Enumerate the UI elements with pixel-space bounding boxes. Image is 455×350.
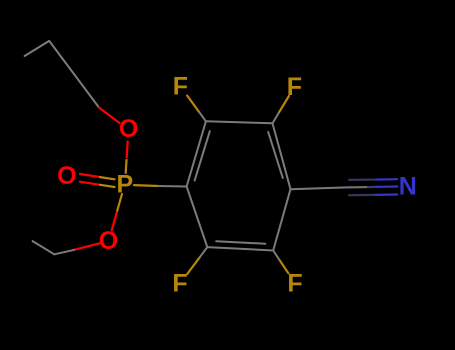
svg-text:P: P bbox=[117, 171, 134, 199]
svg-text:N: N bbox=[399, 173, 417, 201]
wire: nitrile triple bond top line bbox=[349, 178, 397, 181]
wire: C4-C(nitrile) single bond bbox=[291, 187, 348, 189]
wire: O3-CH2 bond red half bbox=[74, 243, 99, 250]
wire: O1-P bond olive half bbox=[125, 160, 128, 173]
svg-text:O: O bbox=[99, 227, 118, 255]
wire: C6-F3 bond olive half bbox=[187, 257, 200, 274]
wire: C3-F2 bond olive half bbox=[279, 96, 289, 113]
wire: C5-F4 bond olive half bbox=[279, 260, 288, 274]
wire: ring edge C3-C4 (right, double) bbox=[273, 123, 291, 189]
wire: P=O2 double bond upper line bbox=[80, 174, 115, 179]
wire: C2-F1 bond olive half bbox=[187, 96, 199, 113]
wire: P-O3 bond olive half bbox=[117, 194, 122, 212]
wire: ring inner double line C1-C2 bbox=[195, 131, 210, 180]
wire: ethyl CH3 terminal bond (top-left) bbox=[25, 41, 50, 56]
svg-text:F: F bbox=[287, 270, 302, 298]
svg-text:O: O bbox=[119, 115, 138, 143]
wire: C3-F2 bond gray half bbox=[273, 113, 279, 123]
wire: P-C1 bond gray half bbox=[158, 185, 187, 188]
wire: C5-F4 bond gray half bbox=[273, 251, 279, 260]
wire: P=O2 double bond lower line bbox=[80, 182, 115, 187]
wire: ethyl CH3 terminal bond (bottom-left) bbox=[33, 241, 55, 254]
wire: nitrile triple bond middle line bbox=[347, 185, 397, 188]
wire: O1-CH2 bond red half bbox=[99, 108, 120, 124]
wire: nitrile triple bond bottom line bbox=[349, 193, 397, 196]
wire: C2-F1 bond gray half bbox=[200, 113, 206, 122]
svg-text:O: O bbox=[57, 162, 76, 190]
wire: O3-CH2 bond gray half bbox=[54, 250, 74, 255]
wire: ring edge C6-C1 bbox=[187, 187, 208, 248]
wire: P-C1 bond olive half bbox=[134, 184, 158, 187]
wire: ring edge C4-C5 bbox=[273, 189, 290, 250]
wire: P-O3 bond red half bbox=[112, 212, 117, 230]
svg-text:F: F bbox=[172, 270, 187, 298]
svg-text:F: F bbox=[173, 72, 188, 100]
wire: ring edge C2-C3 (top) bbox=[206, 121, 273, 123]
wire: ring inner double line C5-C6 bbox=[216, 241, 265, 243]
wire: C6-F3 bond gray half bbox=[200, 247, 208, 257]
wire: ring edge C1-C2 (left, double) bbox=[187, 121, 206, 186]
wire: O1-P bond red half bbox=[127, 142, 128, 158]
ring benzene edges bbox=[187, 121, 291, 250]
wire: ring inner double line C3-C4 bbox=[268, 132, 283, 178]
wire: ethyl CH2-CH bond (top-left diagonal) bbox=[49, 41, 99, 108]
wire: ring edge C5-C6 (bottom, double) bbox=[207, 247, 273, 250]
